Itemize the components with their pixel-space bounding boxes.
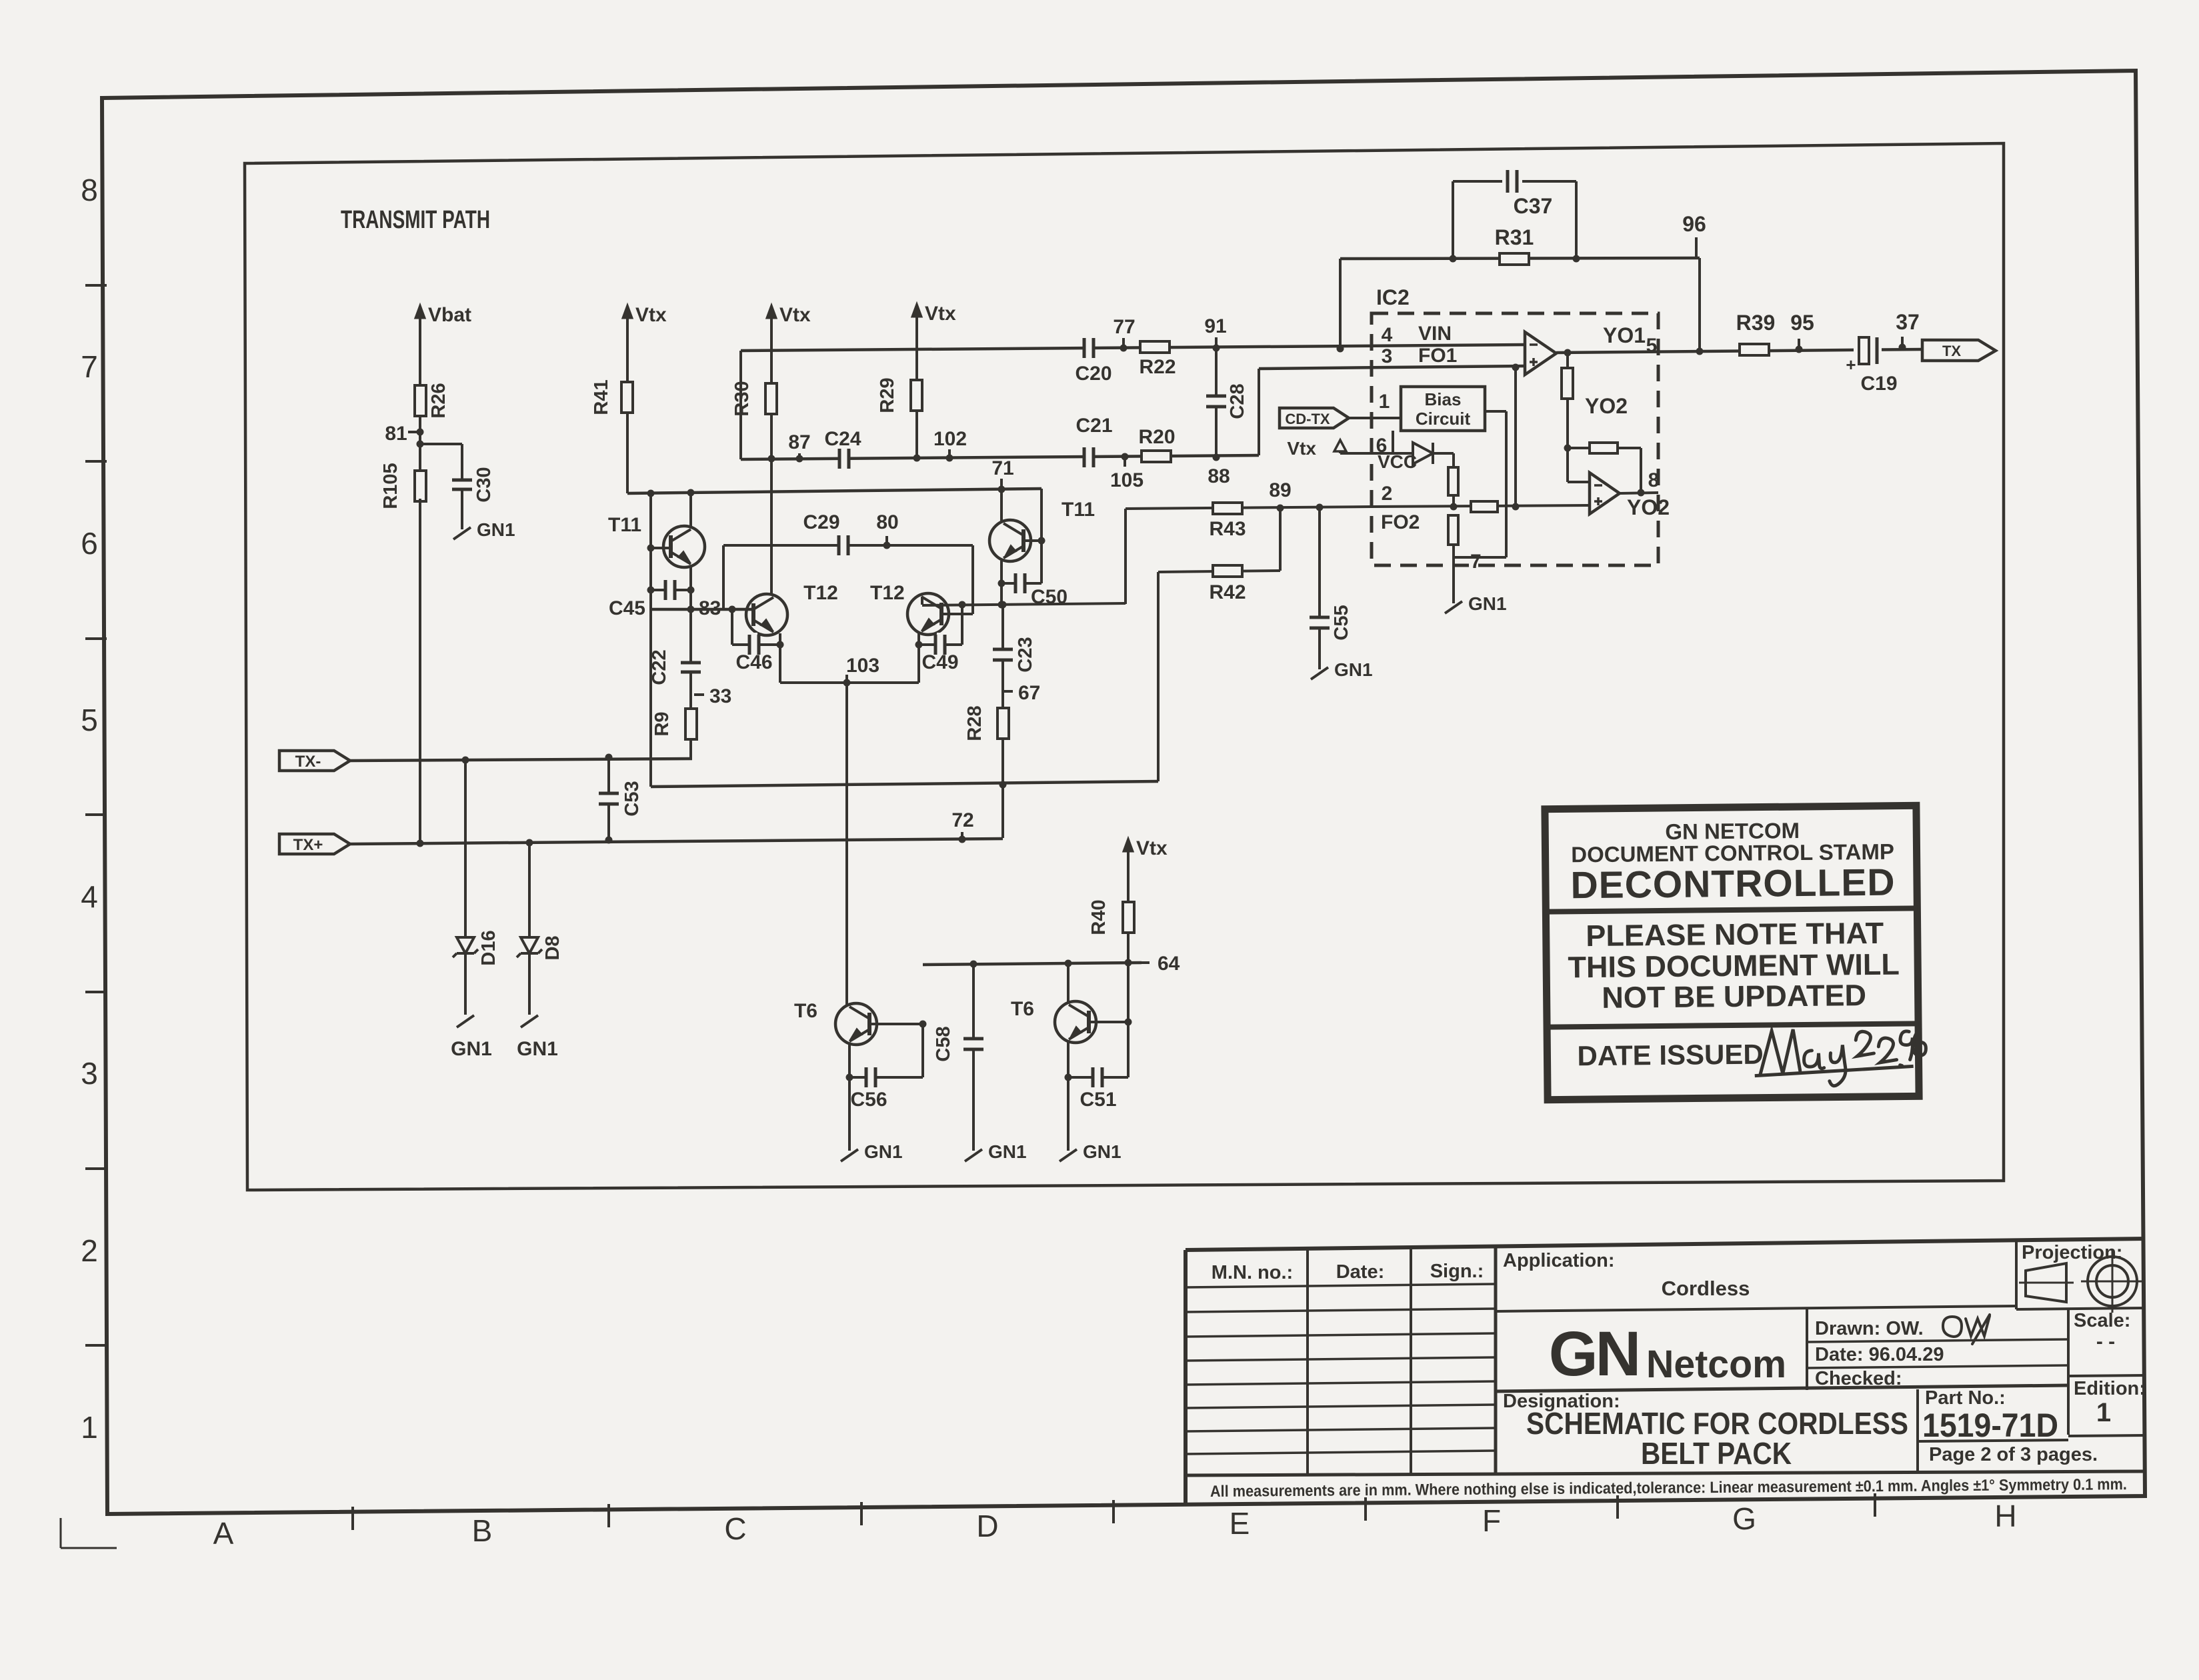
svg-text:C24: C24 [824,428,861,450]
Bias Circuit box [1401,387,1485,431]
wire Vbat to R26 [419,347,421,387]
svg-text:R26: R26 [428,383,449,418]
wire TX+ rail [350,839,1003,844]
resistor R29 [911,380,922,411]
svg-text:B: B [472,1513,493,1548]
capacitor C37 loop [1450,255,1457,263]
wire 96 down to output [1698,258,1701,351]
resistor internal lower [1448,515,1458,545]
svg-text:3: 3 [81,1056,98,1091]
svg-text:R39: R39 [1736,311,1776,335]
resistor R30 [765,383,777,414]
svg-text:DATE ISSUED: DATE ISSUED [1577,1039,1764,1072]
svg-text:87: 87 [788,431,810,453]
svg-text:7: 7 [1470,551,1482,573]
svg-text:C37: C37 [1514,194,1553,218]
wire T6L base [869,1023,923,1025]
wire T6L emitter [848,1043,851,1151]
wire corner down to C24 bus [739,351,742,459]
wire R43 line [1126,507,1372,509]
column ruler ticks [351,1507,354,1530]
ground GN1 (IC2 pin7) [1445,601,1462,613]
svg-text:A: A [213,1516,234,1551]
svg-text:GN1: GN1 [864,1141,903,1162]
wire T6R emitter [1067,1041,1069,1151]
svg-text:D8: D8 [542,935,563,960]
svg-text:GN1: GN1 [1468,593,1507,614]
wire C55 branch [1316,504,1324,511]
svg-text:Vtx: Vtx [925,303,956,325]
projection circle symbol [2088,1257,2137,1306]
svg-text:T11: T11 [1061,499,1095,521]
svg-text:R20: R20 [1138,426,1175,448]
wire C29 branch [722,545,725,609]
svg-text:8: 8 [1648,469,1660,491]
resistor R9 [685,709,697,739]
svg-text:G: G [1732,1501,1756,1536]
svg-text:R31: R31 [1495,225,1534,249]
svg-text:64: 64 [1158,953,1180,975]
wire R30 to C24 bus and T12L collector [770,414,773,595]
svg-text:C29: C29 [803,511,839,533]
node 67 [1003,690,1013,693]
svg-text:4: 4 [1382,324,1393,346]
wire T12L emitter [779,633,781,683]
capacitor C45 [651,589,691,591]
wire collector line 907 [922,603,1126,605]
svg-text:5: 5 [1646,335,1658,357]
svg-text:C28: C28 [1227,383,1248,419]
svg-text:NOT BE UPDATED: NOT BE UPDATED [1602,978,1866,1015]
resistor R26 [419,387,421,431]
op-amp YO1 [1525,332,1556,375]
svg-text:R41: R41 [591,379,612,415]
wire bus up to R42 [1157,572,1160,781]
svg-text:R22: R22 [1139,356,1176,378]
svg-text:Netcom: Netcom [1646,1343,1786,1386]
svg-text:GN1: GN1 [477,519,515,540]
wire R42 line [1158,571,1280,572]
connector CD-TX [1280,408,1349,428]
node 89 [1277,505,1284,512]
wire YO1 output [1556,349,1922,353]
svg-text:80: 80 [876,511,898,533]
wire VIN bus [741,345,1527,351]
projection box [2015,1239,2018,1309]
svg-text:- -: - - [2096,1331,2115,1353]
svg-text:C19: C19 [1860,373,1897,395]
svg-text:DECONTROLLED: DECONTROLLED [1570,861,1896,907]
svg-text:FO2: FO2 [1381,511,1420,533]
wire pin1 [1349,417,1401,419]
zener diode D8 [526,839,533,847]
svg-text:R105: R105 [380,463,401,509]
power rail Vtx (R29) [915,311,918,345]
svg-text:95: 95 [1790,311,1814,335]
resistor R39 [1740,344,1769,355]
resistor R31 [1500,253,1529,265]
svg-text:TRANSMIT PATH: TRANSMIT PATH [341,206,490,234]
svg-text:37: 37 [1896,310,1920,334]
capacitor C23 [1001,605,1004,650]
svg-text:91: 91 [1204,315,1226,337]
page row [1918,1440,2068,1441]
resistor R20 [1142,451,1171,462]
svg-text:Application:: Application: [1503,1250,1615,1271]
power rail Vbat [419,312,421,347]
svg-text:C21: C21 [1075,415,1112,437]
wire bias right leg [1485,410,1506,413]
wire T11L collector [689,493,692,527]
wire pin6 VCC [1340,452,1413,455]
svg-text:Circuit: Circuit [1416,409,1471,429]
svg-text:T6: T6 [794,1000,817,1022]
left table M.N. columns [1306,1249,1309,1476]
wire T11R collector [1000,489,1003,521]
capacitor C21 [1085,445,1092,469]
svg-text:TX+: TX+ [293,836,323,854]
svg-text:GN1: GN1 [517,1038,558,1060]
wire up to FO1 line [1258,369,1260,455]
diode (VCC) [1413,443,1433,464]
svg-text:Edition:: Edition: [2074,1378,2146,1399]
svg-text:YO2: YO2 [1627,495,1670,519]
resistor R105 [415,471,426,501]
svg-text:77: 77 [1113,316,1135,338]
svg-text:+: + [1846,355,1856,375]
document control stamp box [1545,805,1926,1099]
node 105 [1122,453,1129,461]
svg-text:1: 1 [2096,1398,2111,1427]
svg-text:72: 72 [951,809,973,831]
svg-text:T12: T12 [803,582,838,604]
svg-text:89: 89 [1269,479,1291,501]
svg-text:81: 81 [385,423,407,445]
left table rows [1186,1284,1496,1287]
svg-text:TX-: TX- [295,753,321,771]
wire loop left leg [1337,345,1344,353]
ground GN1 (T6 right) [1059,1149,1077,1161]
svg-text:FO1: FO1 [1418,345,1457,367]
wire R42 up to node 89 [1279,508,1282,571]
wire FO1 line [1259,366,1526,369]
wire emitter line to R43 corner [1124,509,1127,604]
svg-text:GN: GN [1549,1319,1639,1389]
ground GN1 (C30) [453,527,471,539]
wire T11R base stub [1023,539,1041,542]
svg-text:VCC: VCC [1378,451,1417,472]
svg-text:T11: T11 [608,514,641,536]
wire R105 to TX+ rail [419,499,421,843]
svg-text:88: 88 [1208,465,1230,487]
svg-text:R29: R29 [877,377,898,413]
node 64 [1142,961,1150,964]
capacitor C30 [461,444,463,479]
GN Netcom logo box [1806,1309,1808,1390]
ground GN1 (T6 left) [841,1149,858,1161]
capacitor C29 [840,533,847,557]
svg-text:8: 8 [81,173,98,207]
wire T12R emitter [917,633,920,683]
wire Vtx rail (R30) [770,312,773,347]
ground GN1 (D8) [528,1007,531,1015]
title block frame [1186,1239,2145,1250]
zener diode D16 [462,757,469,764]
svg-text:C51: C51 [1079,1089,1116,1111]
node 33 [694,693,704,696]
svg-text:Vbat: Vbat [428,304,471,326]
power rail Vtx (R40) [1127,845,1130,880]
resistor R28 [997,708,1009,739]
svg-text:33: 33 [709,685,731,707]
wire to T12R base [971,545,974,614]
svg-text:R40: R40 [1088,899,1110,935]
svg-text:TX: TX [1942,343,1961,359]
resistor R22 [1140,341,1170,353]
capacitor C46 [731,609,733,645]
resistor R40 [1123,902,1134,933]
svg-text:1: 1 [81,1410,98,1445]
svg-text:CD-TX: CD-TX [1285,411,1330,427]
svg-text:102: 102 [933,428,967,450]
resistor R42 [1213,565,1242,577]
svg-text:Vtx: Vtx [1136,837,1168,859]
svg-text:C56: C56 [850,1089,887,1111]
svg-text:R43: R43 [1209,518,1246,540]
part no box [1916,1389,1919,1471]
wire T11L base drop [649,493,652,609]
svg-text:C45: C45 [609,597,645,619]
svg-text:Date: 96.04.29: Date: 96.04.29 [1815,1344,1944,1365]
svg-text:Scale:: Scale: [2074,1310,2130,1331]
wire branch to C30 [420,443,462,445]
svg-text:Vtx: Vtx [779,304,811,326]
power rail Vtx (R41) [626,312,629,347]
svg-text:R28: R28 [964,705,985,741]
svg-text:67: 67 [1018,682,1040,704]
svg-text:T12: T12 [870,582,905,604]
capacitor C56 [849,1076,923,1079]
capacitor C53 [605,754,613,761]
capacitor C20 [1085,336,1092,360]
wire emitter join 103 [780,681,919,684]
svg-text:GN1: GN1 [1334,659,1373,680]
svg-text:VIN: VIN [1418,323,1452,345]
svg-text:R42: R42 [1209,581,1246,603]
svg-text:3: 3 [1382,345,1393,367]
stamp date underline [1755,1066,1914,1075]
resistor internal on FO2 [1471,501,1498,512]
svg-text:Sign.:: Sign.: [1430,1261,1484,1282]
wire 103 down to T6 [845,683,848,1006]
connector TX- [279,751,350,771]
wire bus 740 [627,489,1041,493]
capacitor C19 (electrolytic) [1854,333,1882,368]
wire C24 bus [741,455,1259,459]
svg-text:GN1: GN1 [1083,1141,1122,1162]
wire R28 to TX+ end [1001,785,1004,838]
svg-text:YO2: YO2 [1585,394,1628,418]
svg-text:Part No.:: Part No.: [1925,1387,2006,1409]
svg-text:C20: C20 [1075,363,1112,385]
capacitor C28 [1215,348,1218,396]
svg-text:6: 6 [81,526,98,561]
ground GN1 (C55) [1311,667,1328,679]
IC2 dashed box [1372,313,1658,565]
wire T6R base [1089,1021,1128,1023]
svg-text:C: C [724,1511,746,1546]
ground GN1 (C58) [965,1149,982,1161]
wire R41 down to bus [626,413,629,493]
drawn/date/checked box [2067,1308,2070,1435]
capacitor C55 [1308,619,1332,626]
svg-text:C30: C30 [473,467,495,502]
capacitor C24 [841,447,847,471]
svg-text:C49: C49 [921,651,958,673]
page border frame [102,71,2145,1514]
svg-text:GN1: GN1 [988,1141,1027,1162]
title strip separator (above measurements) [1186,1471,2145,1475]
svg-text:96: 96 [1682,212,1706,236]
connector TX output [1922,340,1996,361]
capacitor C58 [972,964,975,1039]
svg-text:C58: C58 [933,1026,954,1061]
svg-text:E: E [1230,1506,1250,1541]
pin 2 FO2 line [1372,505,1590,507]
svg-text:IC2: IC2 [1376,285,1410,309]
wire T11L emitter [689,567,692,759]
svg-text:C55: C55 [1331,605,1352,640]
wire bias bottom tap [1392,431,1394,453]
op-amp YO2 [1568,481,1590,483]
svg-text:F: F [1482,1503,1501,1538]
svg-text:H: H [1994,1499,2016,1533]
ground GN1 (D16) [464,1007,467,1015]
svg-text:5: 5 [81,703,98,737]
resistor internal feedback [1568,447,1641,449]
svg-text:2: 2 [1382,483,1393,505]
svg-text:C50: C50 [1031,586,1067,608]
inner schematic frame [245,143,2004,1190]
svg-text:Vtx: Vtx [635,304,667,326]
svg-text:4: 4 [81,879,98,914]
capacitor C22 [679,664,703,671]
svg-text:71: 71 [991,457,1013,479]
projection trapezoid symbol [2026,1263,2066,1302]
svg-text:YO1: YO1 [1603,323,1646,347]
handwritten OW initials [1943,1315,1990,1344]
svg-text:Page 2 of 3 pages.: Page 2 of 3 pages. [1929,1444,2098,1465]
svg-text:1519-71D: 1519-71D [1922,1407,2058,1444]
capacitor C49 [919,643,962,646]
svg-text:BELT PACK: BELT PACK [1641,1436,1792,1471]
svg-text:2: 2 [81,1233,98,1268]
svg-text:Drawn: OW.: Drawn: OW. [1815,1318,1924,1339]
svg-text:7: 7 [81,349,98,384]
corner registration mark [60,1518,62,1548]
wire R31 line [1340,258,1700,259]
svg-text:105: 105 [1110,469,1144,491]
wire YO2 output [1620,493,1658,493]
svg-text:C23: C23 [1015,637,1036,672]
wire 64 bus [923,963,1142,965]
wire TX- rail [350,759,692,761]
wire bus740 corner down to T11 base loop [1040,489,1043,583]
svg-text:Bias: Bias [1425,389,1462,409]
svg-text:GN1: GN1 [451,1038,492,1060]
row ruler ticks [85,284,107,287]
wire FO1 to FO2 vertical [1514,367,1517,507]
resistor internal YO1 out [1566,353,1569,482]
capacitor C51 [1068,1076,1128,1079]
svg-text:Vtx: Vtx [1287,438,1316,459]
wire T11R emitter [1000,561,1003,605]
handwritten date May 22.96 [1760,1028,1926,1087]
application box [1496,1306,2016,1311]
svg-text:Date:: Date: [1336,1261,1385,1283]
svg-text:M.N. no.:: M.N. no.: [1212,1262,1293,1283]
wire node81 down [419,432,421,473]
svg-text:D16: D16 [478,930,499,965]
svg-text:103: 103 [846,655,879,677]
wire feedback bus 1179 [649,609,652,787]
wire T6R collector [1067,963,1069,1003]
designation box [1496,1385,2068,1391]
svg-text:1: 1 [1379,391,1390,413]
capacitor C50 [1001,582,1041,585]
wire C49 up to collector line [961,605,963,645]
connector TX+ [279,834,350,854]
svg-text:C46: C46 [735,651,772,673]
resistor R43 [1213,503,1242,514]
svg-text:Projection:: Projection: [2022,1242,2122,1263]
wire T12R collector stub [921,597,923,605]
wire 83 bus [651,608,754,611]
svg-text:R9: R9 [651,711,673,736]
resistor R41 [621,382,633,413]
svg-text:T6: T6 [1011,998,1034,1020]
svg-text:D: D [976,1509,998,1543]
svg-text:Cordless: Cordless [1662,1277,1750,1300]
svg-text:C53: C53 [621,781,643,816]
resistor internal upper [1452,453,1455,507]
